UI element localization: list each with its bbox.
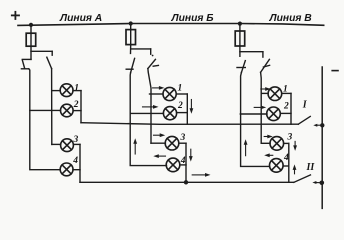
lamp 3B bbox=[165, 136, 179, 150]
svg-text:2: 2 bbox=[283, 101, 289, 111]
wire lamp 2A feed bbox=[30, 109, 61, 111]
svg-text:3: 3 bbox=[180, 133, 186, 143]
node dot line A bbox=[29, 23, 33, 27]
svg-text:II: II bbox=[306, 162, 316, 173]
switch SB2 bar bbox=[153, 64, 158, 67]
wire lamp3B out bbox=[179, 142, 186, 144]
switch SC2 bar bbox=[263, 65, 269, 67]
wire bus to fuse F1 bbox=[30, 25, 32, 33]
wire lamp1A out bbox=[73, 90, 81, 92]
wire lamp 3C feed bbox=[261, 142, 270, 144]
lamp 4C bbox=[270, 159, 284, 173]
node dot switch I on minus bus bbox=[320, 123, 324, 127]
svg-text:Линия Б: Линия Б bbox=[171, 13, 214, 24]
wire pair12C to W1 bbox=[290, 93, 292, 124]
wire pair34B to W2 bbox=[185, 143, 187, 182]
wire pair34A to W2 bbox=[79, 144, 81, 182]
current arrow lamp3C bbox=[264, 135, 273, 139]
wire fuse F1 to branch bbox=[30, 46, 32, 59]
lamp 4B bbox=[166, 158, 180, 172]
switch SB1 bar bbox=[126, 68, 133, 70]
wire right branch A bbox=[31, 50, 52, 52]
switch SC1 blade bbox=[241, 61, 245, 73]
wire left C down bbox=[241, 73, 270, 167]
svg-text:Линия В: Линия В bbox=[269, 13, 313, 24]
switch SA1 bar bbox=[21, 68, 28, 70]
wire lamp2C out bbox=[280, 112, 291, 114]
wire lamp4C out bbox=[283, 165, 289, 167]
current arrow lamp4B (left) bbox=[153, 154, 165, 158]
wire lamp 3A feed bbox=[52, 143, 61, 145]
node dot W2 B bbox=[184, 180, 188, 184]
svg-text:1: 1 bbox=[74, 84, 79, 94]
wire W2 group II bbox=[80, 181, 294, 183]
fuse F1 bbox=[26, 33, 36, 46]
wire left A down bbox=[29, 69, 61, 170]
current arrow lamp2C bbox=[254, 106, 266, 110]
current arrow down pair34B bbox=[189, 149, 193, 161]
node dot switch II on minus bus bbox=[320, 181, 325, 186]
wire fuse F3 down bbox=[239, 46, 241, 56]
wire lamp 1B feed bbox=[150, 93, 164, 95]
lamp 3C bbox=[270, 137, 284, 151]
current arrow up left C bbox=[244, 139, 248, 155]
svg-text:3: 3 bbox=[287, 132, 293, 142]
current arrow lamp1C bbox=[261, 87, 271, 91]
svg-text:2: 2 bbox=[177, 101, 183, 111]
fuse F3 bbox=[235, 31, 245, 46]
wire lamp1C out bbox=[282, 92, 291, 94]
switch II target arrow bbox=[312, 181, 321, 184]
wire pair34C to W2 bbox=[288, 143, 290, 182]
wire lamp4B out bbox=[180, 164, 186, 166]
minus terminal bbox=[332, 70, 338, 72]
wire lamp4A out bbox=[73, 169, 80, 171]
wire left branch A bbox=[22, 58, 31, 60]
lamp 1C bbox=[268, 87, 282, 101]
wire fuse F2 down bbox=[130, 45, 132, 54]
wire lamp 1A feed bbox=[52, 90, 61, 92]
svg-text:2: 2 bbox=[73, 100, 79, 110]
lamp 4A bbox=[60, 163, 73, 176]
wire right B down bbox=[148, 69, 151, 144]
current arrow W2 right of dot bbox=[192, 173, 210, 177]
current arrow lamp1B bbox=[153, 86, 165, 90]
svg-text:I: I bbox=[302, 100, 308, 111]
plus terminal bbox=[12, 12, 19, 19]
switch I blade bbox=[298, 116, 310, 124]
wire pair12A to W1 bbox=[80, 91, 82, 123]
wire lamp 3B feed bbox=[151, 142, 165, 144]
lamp 2A bbox=[61, 104, 74, 117]
wire right A down bbox=[51, 69, 53, 145]
lamp 3A bbox=[61, 139, 74, 152]
fixed contact stub switch SC2 bbox=[262, 52, 264, 57]
lamp 1A bbox=[60, 84, 73, 97]
fixed contact stub switch SA2 bbox=[51, 51, 53, 55]
current arrow lamp2B bbox=[143, 105, 159, 109]
current arrow down pair12B bbox=[190, 100, 194, 114]
fixed contact stub switch SB2 bbox=[150, 49, 152, 54]
current arrow up lamp4C right bbox=[293, 164, 297, 173]
wire right C down bbox=[260, 72, 263, 143]
node dot line B bbox=[129, 21, 133, 25]
wire W1 group I bbox=[81, 123, 298, 125]
switch II blade bbox=[294, 175, 311, 183]
positive bus wire bbox=[18, 24, 324, 26]
current arrow down pair34C bbox=[293, 141, 297, 151]
wire lamp2A out bbox=[73, 110, 81, 112]
lamp 2C bbox=[267, 107, 281, 121]
wire bus to fuse F3 bbox=[239, 24, 241, 31]
node dot line C bbox=[238, 22, 242, 26]
wire lamp 1C feed bbox=[261, 92, 268, 94]
switch SC2 blade bbox=[261, 59, 270, 72]
wire left B down bbox=[130, 73, 166, 166]
current arrow lamp4C (left) bbox=[264, 153, 273, 157]
wire lamp 2C feed bbox=[240, 113, 267, 115]
switch SA2 blade bbox=[47, 57, 52, 68]
current arrow up left B bbox=[133, 138, 137, 154]
wire bus to fuse F2 bbox=[130, 24, 132, 30]
svg-text:1: 1 bbox=[178, 84, 183, 94]
switch SA1 blade bbox=[22, 60, 24, 68]
wire lamp1B out bbox=[176, 93, 187, 95]
wire right branch B bbox=[131, 48, 151, 50]
switch SB2 blade bbox=[148, 59, 156, 68]
current arrow lamp3B bbox=[154, 133, 166, 137]
svg-text:4: 4 bbox=[72, 156, 78, 166]
switch I target arrow bbox=[313, 124, 322, 127]
wire pair12B to W1 bbox=[186, 94, 188, 124]
switch SC1 bar bbox=[237, 67, 245, 69]
wire lamp3C out bbox=[284, 142, 289, 144]
svg-text:Линия А: Линия А bbox=[59, 13, 102, 24]
switch SB1 blade bbox=[131, 58, 135, 72]
wire right branch C bbox=[240, 51, 263, 53]
minus bus wire bbox=[321, 67, 323, 208]
lamp 1B bbox=[163, 87, 176, 100]
fuse F2 bbox=[126, 30, 136, 45]
wire lamp 2B feed bbox=[130, 112, 163, 114]
wire lamp2B out bbox=[177, 112, 188, 114]
wire lamp3A out bbox=[73, 143, 80, 145]
lamp 2B bbox=[163, 107, 176, 120]
